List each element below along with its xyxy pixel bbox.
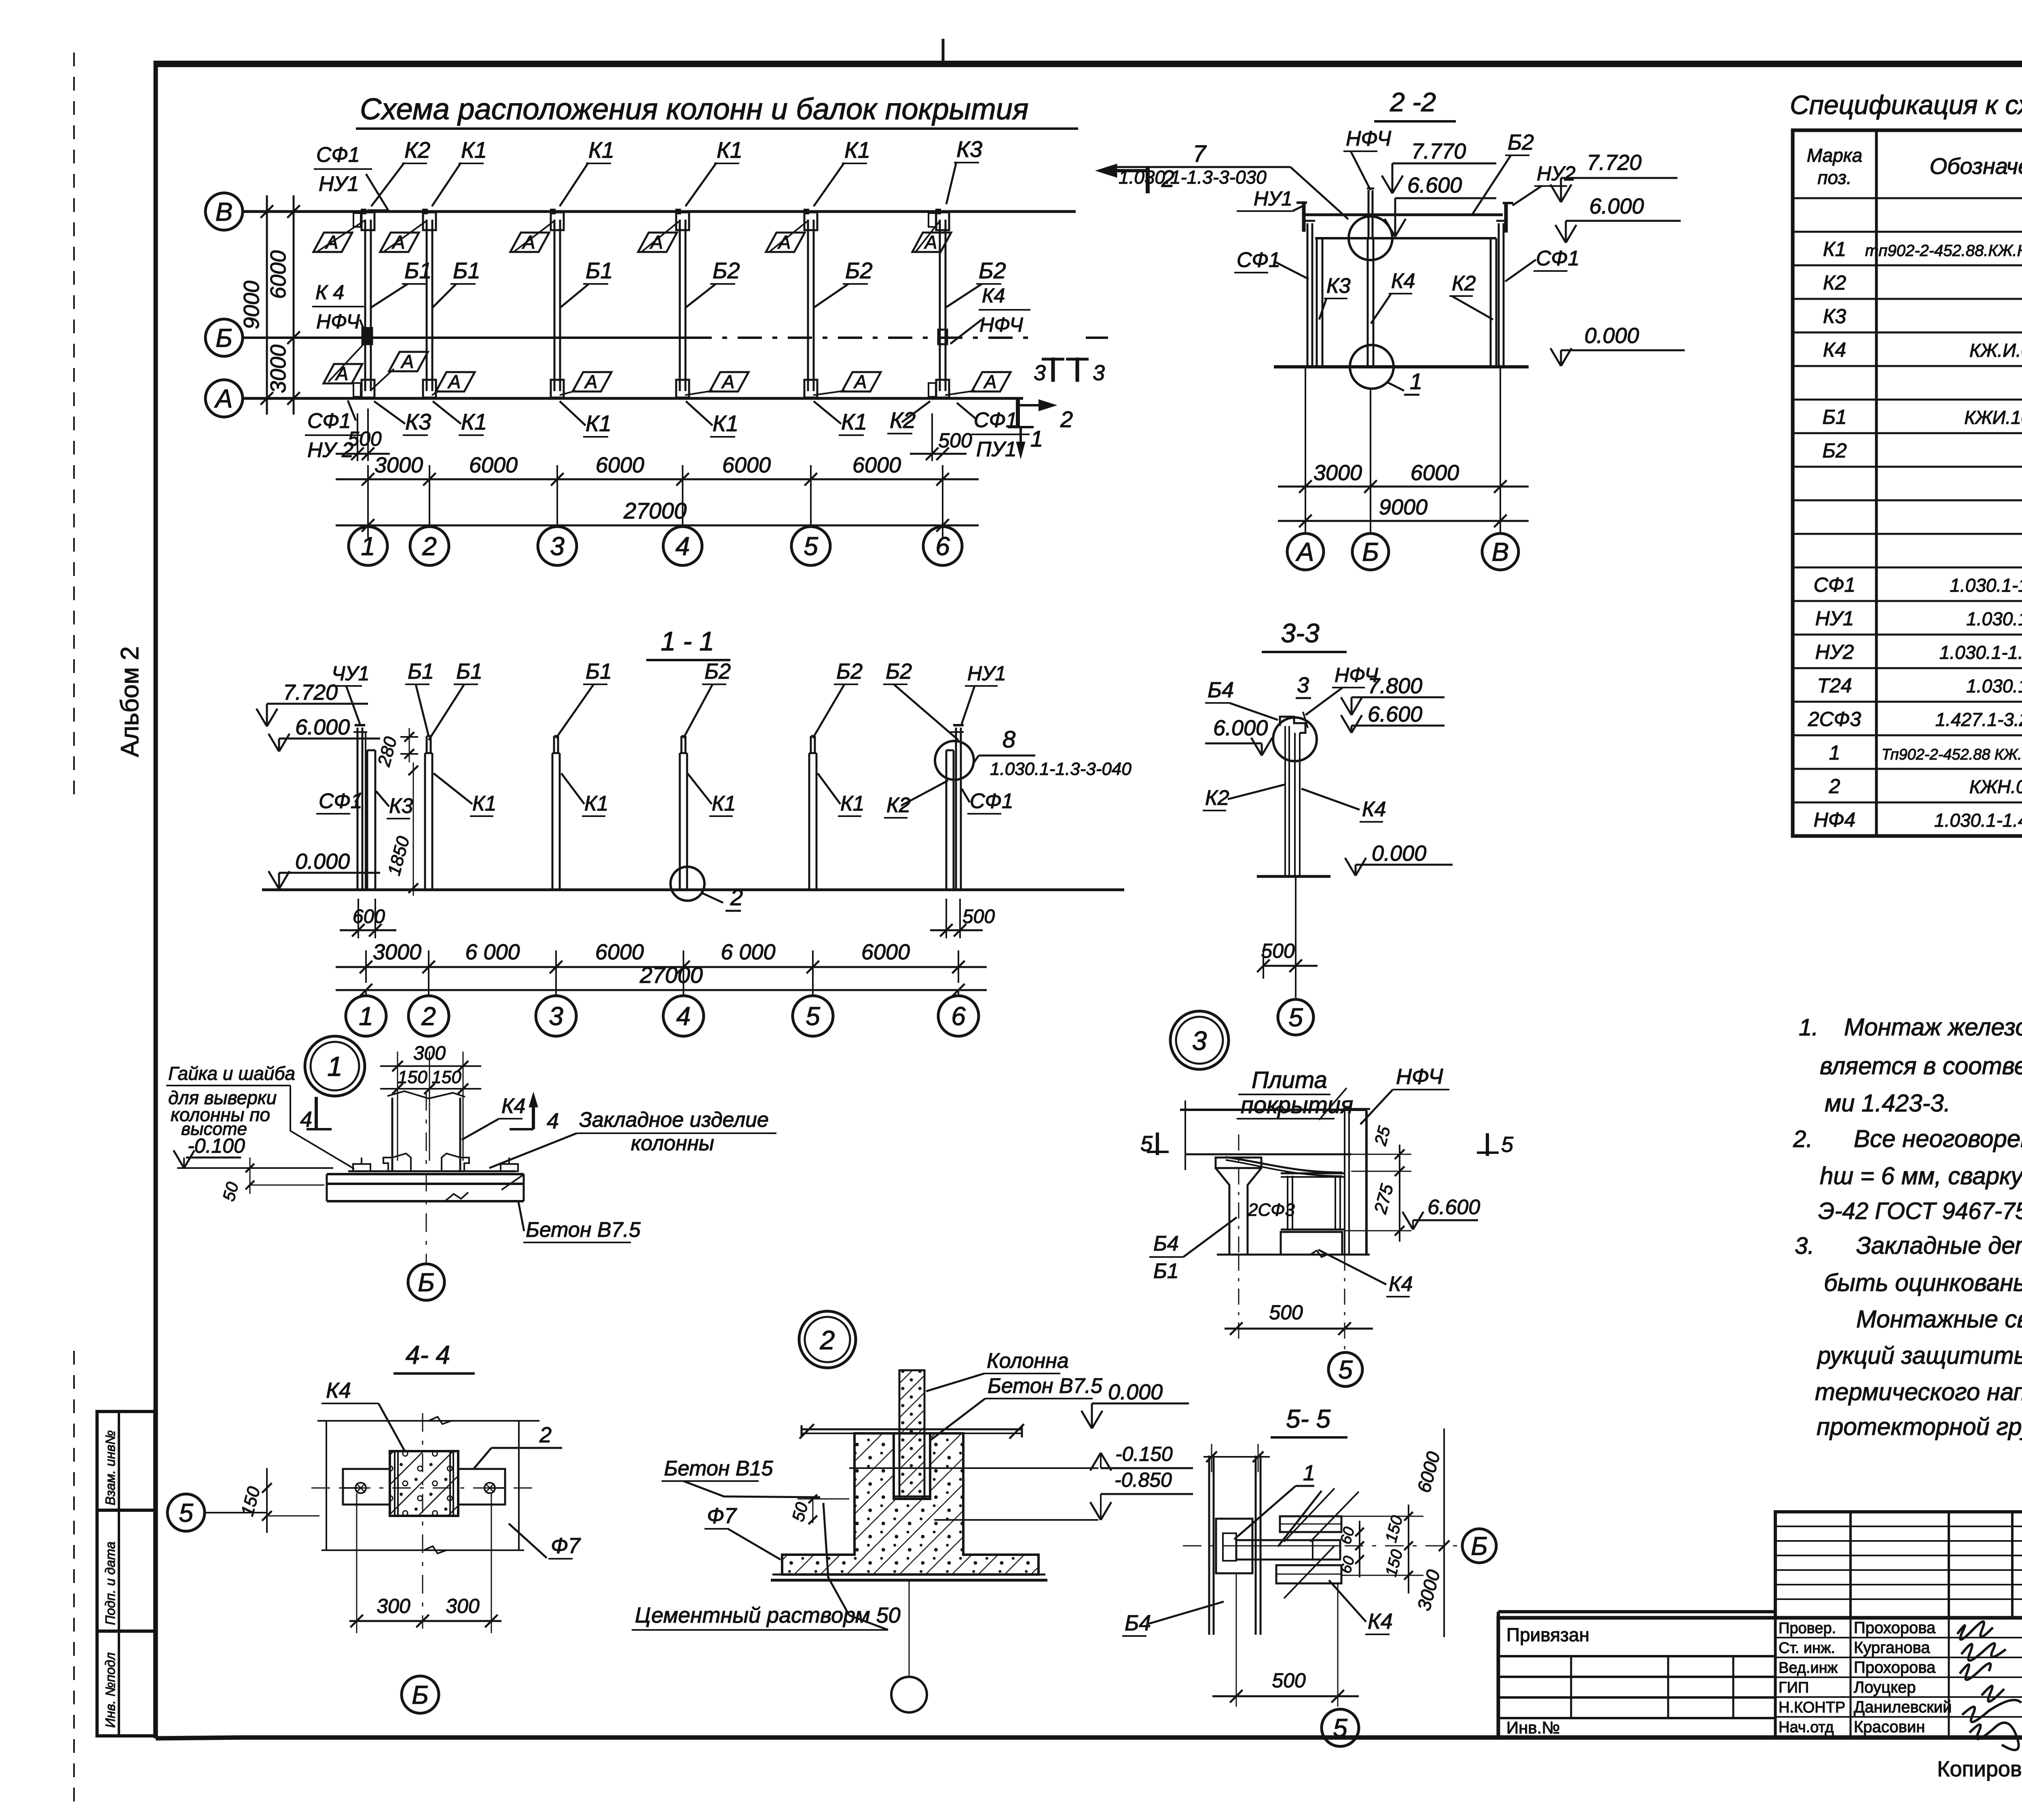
- svg-text:Б: Б: [1362, 537, 1379, 566]
- svg-text:К1: К1: [1823, 238, 1846, 260]
- svg-text:1.030.1-1.4-2-10-03: 1.030.1-1.4-2-10-03: [1950, 575, 2022, 596]
- svg-text:К2: К2: [1205, 786, 1229, 810]
- svg-text:А: А: [924, 232, 937, 253]
- svg-text:А: А: [325, 232, 338, 253]
- svg-text:6 000: 6 000: [721, 940, 775, 964]
- svg-text:Лоуцкер: Лоуцкер: [1854, 1678, 1916, 1696]
- svg-text:Б2: Б2: [886, 659, 912, 684]
- detail 4-4 title: [393, 1340, 475, 1373]
- 2-2 beam Б2: [1303, 215, 1503, 238]
- svg-text:2СФ3: 2СФ3: [1808, 708, 1861, 730]
- svg-text:Бетон В7.5: Бетон В7.5: [988, 1374, 1103, 1398]
- 4-4 outer break lines: [317, 1417, 539, 1553]
- 2-2 ground line: [1274, 365, 1529, 368]
- svg-text:Альбом 2: Альбом 2: [116, 646, 144, 757]
- svg-text:СФ1: СФ1: [1814, 574, 1856, 596]
- node2 column hatched: [899, 1370, 924, 1504]
- 2-2 label НФЧ: [1343, 127, 1392, 190]
- svg-text:ГИП: ГИП: [1779, 1679, 1809, 1696]
- node1 column stub: [387, 1091, 465, 1171]
- svg-text:Копировал:: Копировал:: [1937, 1757, 2022, 1781]
- 1-1 dimension chain: [336, 940, 987, 983]
- svg-text:2: 2: [422, 531, 437, 561]
- svg-text:Б: Б: [418, 1268, 435, 1297]
- svg-text:НФЧ: НФЧ: [1396, 1064, 1443, 1089]
- svg-text:Б4: Б4: [1153, 1232, 1179, 1255]
- svg-text:7.720: 7.720: [1587, 150, 1641, 175]
- svg-text:6: 6: [935, 531, 950, 561]
- svg-text:6000: 6000: [861, 940, 910, 964]
- svg-text:Привязан: Привязан: [1506, 1624, 1589, 1645]
- 1-1 label К1 axis4: [687, 773, 736, 816]
- svg-text:Закладные детали колонн и б: Закладные детали колонн и балок должны: [1856, 1232, 2022, 1259]
- 1-1 dim 280: [374, 728, 418, 769]
- svg-text:9000: 9000: [1379, 495, 1428, 519]
- svg-text:Бетон В7.5: Бетон В7.5: [526, 1218, 641, 1242]
- 5-5 label Б4: [1122, 1602, 1224, 1636]
- svg-text:А: А: [400, 351, 414, 372]
- 2-2 label НУ1: [1237, 187, 1304, 211]
- svg-text:А: А: [447, 371, 461, 392]
- svg-text:Схема расположения колонн и: Схема расположения колонн и балок покрыт…: [360, 92, 1028, 126]
- svg-text:1.030.1-1.3-3-030: 1.030.1-1.3-3-030: [1119, 167, 1267, 188]
- 1-1 elevation 6.000: [269, 715, 380, 751]
- node2 elevation 0.000: [1081, 1380, 1189, 1428]
- 1-1 label К3: [376, 791, 413, 819]
- node2 centerline + circle: [891, 1581, 927, 1712]
- 2-2 axis extension lines: [1305, 367, 1500, 534]
- 5-5 axis circle 5: [1322, 1709, 1359, 1746]
- svg-text:НУ2: НУ2: [1815, 641, 1854, 663]
- svg-text:К4: К4: [1389, 1272, 1413, 1296]
- column К4 at axis6 Б: [938, 330, 947, 344]
- svg-text:НУ1: НУ1: [319, 172, 359, 196]
- section 1-1 title: [646, 626, 730, 660]
- svg-text:300: 300: [413, 1043, 446, 1064]
- svg-text:3-3: 3-3: [1281, 618, 1320, 648]
- 1-1 label К2 axis6: [884, 781, 948, 818]
- svg-text:3000: 3000: [374, 453, 423, 477]
- 1-1 dim 500 right: [930, 899, 995, 938]
- section 3-3 title: [1262, 618, 1347, 652]
- node1 dims 300 150 150: [380, 1043, 481, 1161]
- svg-text:6000: 6000: [1411, 461, 1459, 485]
- svg-text:5: 5: [1338, 1355, 1353, 1384]
- svg-text:1: 1: [359, 1001, 373, 1031]
- 5-5 label 1: [1234, 1461, 1322, 1547]
- 2-2 column К3 left: [1317, 238, 1322, 367]
- 3-3 ground line: [1257, 875, 1330, 878]
- 3-3 elevation 6.600: [1341, 702, 1445, 733]
- 2-2 axis circle Б: [1352, 533, 1389, 570]
- label К1 plan top axis2: [432, 137, 487, 206]
- 5-5 axis circle Б: [1462, 1529, 1496, 1563]
- 2-2 nozzle НУ2 right: [1503, 202, 1513, 233]
- svg-text:-0.150: -0.150: [1115, 1443, 1173, 1465]
- svg-text:Взам. инв№: Взам. инв№: [103, 1430, 118, 1505]
- svg-text:6.000: 6.000: [1213, 716, 1268, 740]
- 5-5 connection box: [1216, 1519, 1252, 1573]
- 1-1 column К1 axis5: [809, 736, 816, 890]
- svg-text:Б2: Б2: [704, 659, 731, 684]
- label К1 plan top axis5: [814, 137, 870, 206]
- spec table grid: [1793, 130, 2022, 836]
- node1 dim 50: [219, 1158, 324, 1203]
- specification title: [1790, 90, 2022, 142]
- 2-2 label НУ2: [1512, 162, 1576, 205]
- svg-text:7.800: 7.800: [1368, 674, 1422, 698]
- 4-4 right plate: [458, 1469, 505, 1505]
- 1-1 column К2 axis6: [946, 750, 954, 890]
- label К1 plan top axis4: [685, 137, 742, 206]
- svg-text:Плита: Плита: [1252, 1067, 1327, 1093]
- svg-text:6000: 6000: [596, 453, 644, 477]
- node1 left note text: [166, 1063, 354, 1169]
- 1-1 axis circles: [346, 990, 386, 1036]
- node3 label НФЧ: [1360, 1064, 1449, 1124]
- svg-text:1: 1: [1303, 1461, 1315, 1485]
- node2 label Бетон В7.5: [931, 1374, 1103, 1440]
- stand СФ1 at axis1 А: [353, 383, 361, 397]
- svg-text:1: 1: [361, 531, 375, 561]
- svg-text:3000: 3000: [1313, 461, 1362, 485]
- svg-text:Б2: Б2: [1822, 439, 1847, 462]
- 1-1 node 2 circle: [670, 867, 704, 901]
- notes item 1: [1799, 1014, 2022, 1117]
- svg-text:2: 2: [1060, 406, 1073, 432]
- svg-text:К1: К1: [717, 137, 742, 163]
- svg-text:500: 500: [1272, 1669, 1306, 1692]
- svg-text:Б2: Б2: [979, 258, 1006, 283]
- svg-text:Ф7: Ф7: [707, 1504, 737, 1528]
- flags А top row: [313, 220, 365, 253]
- plan axis circles 1-6: [349, 525, 387, 565]
- svg-text:6.600: 6.600: [1428, 1196, 1480, 1219]
- label К1 plan bottom axis2: [433, 401, 487, 435]
- svg-text:А: А: [721, 371, 735, 392]
- svg-text:К4: К4: [326, 1378, 351, 1403]
- svg-text:КЖН.00.00.00.02: КЖН.00.00.00.02: [1969, 776, 2022, 797]
- 2-2 node circle bottom: [1350, 345, 1394, 389]
- node2 label Цементный растворм 50: [632, 1503, 901, 1630]
- svg-text:6.600: 6.600: [1368, 702, 1422, 726]
- 3-3 elevation 6.000 left: [1205, 716, 1272, 756]
- 3-3 dim 500: [1257, 940, 1318, 979]
- label К4/НФЧ at axis6 Б: [950, 284, 1030, 344]
- svg-text:Бетон В15: Бетон В15: [664, 1457, 774, 1480]
- 5-5 beam Б4 verticals: [1209, 1456, 1261, 1635]
- 1-1 column К3 axis1: [367, 750, 375, 890]
- 1-1 node 8 circle: [935, 741, 974, 780]
- svg-text:27000: 27000: [623, 498, 687, 523]
- svg-text:К1: К1: [472, 792, 497, 815]
- svg-text:Красовин: Красовин: [1854, 1718, 1925, 1736]
- 2-2 label СФ1 right: [1505, 247, 1580, 281]
- svg-text:ПУ1: ПУ1: [976, 438, 1017, 461]
- svg-text:К3: К3: [405, 409, 431, 434]
- svg-text:К1: К1: [461, 137, 487, 163]
- spec row 2СФ3: [1808, 707, 2022, 731]
- svg-text:Инв.№: Инв.№: [1506, 1718, 1560, 1737]
- svg-text:Монтажные сварные швы соеди: Монтажные сварные швы соединений конст-: [1856, 1306, 2022, 1333]
- fold mark line left edge: [73, 53, 75, 1812]
- svg-text:2 -2: 2 -2: [1390, 87, 1436, 117]
- svg-text:ЧУ1: ЧУ1: [332, 662, 369, 685]
- svg-text:Инв. №подл: Инв. №подл: [103, 1653, 118, 1728]
- 2-2 axis circle А: [1287, 533, 1324, 570]
- spec row 1: [1829, 741, 2022, 764]
- notes item 2: [1793, 1125, 2022, 1224]
- svg-text:К4: К4: [1823, 339, 1846, 361]
- 4-4 axis circle 5: [167, 1494, 267, 1531]
- 5-5 label К4: [1329, 1580, 1393, 1634]
- svg-text:Б1: Б1: [408, 659, 434, 684]
- spec row К3: [1823, 305, 2022, 328]
- node2 label Ф7: [704, 1504, 780, 1560]
- svg-text:Обозначение: Обозначение: [1929, 153, 2022, 179]
- node1 base plate: [327, 1171, 524, 1201]
- spec row НУ1: [1815, 607, 2022, 630]
- 1-1 column К1 axis3: [552, 736, 560, 890]
- svg-text:2: 2: [421, 1001, 436, 1031]
- 2-2 stand СФ1 right: [1496, 221, 1507, 367]
- svg-text:Гайка и шайба: Гайка и шайба: [168, 1063, 295, 1084]
- svg-text:5: 5: [804, 531, 818, 561]
- 3-3 axis extension: [1295, 876, 1297, 998]
- svg-text:1.030.1-1.4-1-240: 1.030.1-1.4-1-240: [1966, 675, 2022, 696]
- svg-text:Б1: Б1: [586, 258, 613, 283]
- svg-text:500: 500: [348, 427, 382, 450]
- svg-text:К3: К3: [1326, 274, 1351, 298]
- 2-2 label К2: [1449, 272, 1493, 320]
- svg-text:покрытия: покрытия: [1241, 1092, 1353, 1118]
- svg-text:Б1: Б1: [404, 258, 432, 283]
- svg-text:А: А: [1295, 537, 1314, 566]
- 4-4 dims 300 300: [349, 1493, 501, 1633]
- label К1 plan bottom axis4: [686, 401, 738, 437]
- 1-1 column К1 axis2: [425, 736, 432, 890]
- svg-text:СФ1: СФ1: [1237, 248, 1280, 272]
- svg-text:Спецификация к схеме распол: Спецификация к схеме расположения колонн…: [1790, 90, 2022, 120]
- label СФ1/НУ1 top-left: [314, 143, 388, 210]
- svg-text:К1: К1: [584, 792, 609, 815]
- svg-text:В: В: [1492, 537, 1509, 566]
- svg-text:Колонна: Колонна: [987, 1349, 1069, 1373]
- svg-text:А: А: [983, 371, 997, 392]
- 4-4 centerlines: [311, 1413, 537, 1629]
- section marks 3-3 near Б: [1034, 358, 1105, 385]
- left dim chain 6000 3000: [266, 195, 300, 415]
- 4-4 axis circle Б: [402, 1676, 439, 1713]
- svg-text:Э-42 ГОСТ 9467-75 по ГОСТ 52: Э-42 ГОСТ 9467-75 по ГОСТ 5264-80, тип с…: [1818, 1198, 2022, 1224]
- 2-2 label К3: [1319, 274, 1351, 320]
- svg-text:6000: 6000: [852, 453, 901, 477]
- 3-3 column К2/К4: [1285, 726, 1300, 876]
- svg-text:Вед.инж: Вед.инж: [1779, 1659, 1838, 1676]
- node2 foundation block hatched: [782, 1433, 1038, 1575]
- svg-text:быть оцинкованы в процессе: быть оцинкованы в процессе изготовления.: [1824, 1269, 2022, 1296]
- svg-text:600: 600: [353, 906, 385, 927]
- svg-text:1.030.1-1.4-1-020: 1.030.1-1.4-1-020: [1966, 608, 2022, 629]
- node 3 bubble: [1170, 1011, 1229, 1069]
- 2-2 label К4: [1371, 269, 1415, 324]
- node3 wall НФЧ vertical: [1343, 1109, 1370, 1255]
- svg-text:К1: К1: [841, 409, 867, 434]
- svg-text:Б1: Б1: [456, 659, 482, 684]
- 1-1 node 8 label: [974, 726, 1132, 779]
- svg-text:Марка: Марка: [1807, 145, 1862, 166]
- 1-1 nozzle cap axis1: [353, 731, 367, 733]
- svg-text:2СФ3: 2СФ3: [1248, 1200, 1295, 1220]
- node 2 bubble: [799, 1311, 856, 1368]
- 5-5 dim 500: [1212, 1573, 1359, 1707]
- label К3 plan top axis6: [946, 136, 982, 204]
- svg-text:НУ1: НУ1: [1254, 187, 1292, 210]
- svg-text:ми 1.423-3.: ми 1.423-3.: [1825, 1090, 1950, 1117]
- svg-text:6000: 6000: [266, 250, 290, 299]
- grid circle Б: [205, 319, 243, 356]
- node3 element 2СФ3: [1281, 1173, 1344, 1230]
- label СФ1/НУ2 bottom-left: [305, 400, 363, 462]
- 2-2 column К4 center: [1367, 188, 1374, 367]
- svg-text:А: А: [853, 371, 867, 392]
- node3 label 2СФ3: [1248, 1200, 1295, 1220]
- svg-text:-0.850: -0.850: [1115, 1469, 1172, 1491]
- svg-text:Б4: Б4: [1125, 1611, 1151, 1635]
- svg-text:0.000: 0.000: [295, 849, 350, 874]
- svg-text:Б2: Б2: [845, 258, 873, 283]
- 2-2 elevation 7.720: [1550, 150, 1677, 202]
- 1-1 elevation 0.000: [269, 849, 380, 889]
- label К3 plan bottom: [374, 401, 431, 435]
- node2 dim 50: [788, 1494, 849, 1524]
- spec row Б1: [1822, 405, 2022, 429]
- node3 labels Б4 Б1: [1149, 1217, 1237, 1283]
- node3 label Плита покрытия: [1237, 1067, 1353, 1120]
- label СФ1/НУ1 bottom-right: [957, 403, 1030, 461]
- title block names columns: [1775, 1618, 2022, 1737]
- title block left part: [1498, 1624, 1775, 1737]
- node 1 bubble: [305, 1036, 365, 1096]
- svg-text:3: 3: [1034, 361, 1046, 385]
- label К2 plan top: [371, 137, 430, 206]
- svg-text:К4: К4: [1362, 798, 1386, 821]
- svg-text:9000: 9000: [239, 281, 264, 329]
- svg-text:300: 300: [446, 1595, 480, 1617]
- 1-1 elevation 7.720: [256, 680, 368, 726]
- svg-text:протекторной грунтовки.: протекторной грунтовки.: [1817, 1413, 2022, 1440]
- svg-text:4: 4: [676, 1001, 691, 1031]
- svg-text:3: 3: [550, 531, 565, 561]
- svg-text:К4: К4: [1368, 1609, 1393, 1634]
- svg-text:Б: Б: [412, 1680, 429, 1709]
- 1-1 dim 1850: [384, 762, 418, 896]
- 2-2 label Б2: [1472, 130, 1534, 215]
- svg-text:3: 3: [549, 1001, 563, 1031]
- svg-text:НУ2: НУ2: [1537, 162, 1576, 185]
- section mark 2 top-right: [1098, 165, 1174, 193]
- svg-text:НУ1: НУ1: [1815, 607, 1854, 630]
- svg-text:Н.КОНТР: Н.КОНТР: [1779, 1699, 1845, 1716]
- svg-text:СФ1: СФ1: [1536, 247, 1580, 270]
- svg-text:Т24: Т24: [1817, 674, 1852, 697]
- svg-text:5: 5: [1333, 1713, 1347, 1742]
- spec row К4: [1823, 338, 2022, 362]
- label 7 / 1.030.1-1.3-3-030: [1114, 141, 1348, 219]
- svg-text:1: 1: [1829, 741, 1840, 764]
- svg-text:поз.: поз.: [1817, 167, 1852, 188]
- svg-text:500: 500: [938, 429, 972, 452]
- svg-text:4- 4: 4- 4: [406, 1340, 450, 1369]
- spec row Т24: [1817, 674, 2022, 697]
- fold tick top: [942, 39, 945, 63]
- svg-text:1.030.1-1.4-1-020-01: 1.030.1-1.4-1-020-01: [1940, 642, 2022, 663]
- svg-text:К2: К2: [890, 407, 916, 433]
- label К1 plan bottom axis3: [560, 401, 611, 437]
- svg-text:К1: К1: [840, 792, 865, 815]
- 2-2 axis circle В: [1482, 533, 1519, 570]
- 2-2 node circle top (НФЧ joint): [1349, 216, 1392, 260]
- svg-text:СФ1: СФ1: [974, 408, 1017, 432]
- 3-3 label К2: [1203, 785, 1284, 811]
- node3 ground line: [1217, 1251, 1370, 1257]
- svg-text:150: 150: [398, 1067, 427, 1087]
- svg-text:К4: К4: [982, 284, 1005, 307]
- svg-text:К2: К2: [886, 794, 911, 817]
- 5-5 plates hatched: [1276, 1516, 1341, 1583]
- svg-text:3: 3: [1192, 1026, 1207, 1056]
- svg-text:Б1: Б1: [453, 258, 480, 283]
- axis line А: [243, 397, 1023, 400]
- svg-text:А: А: [214, 384, 233, 413]
- svg-text:2: 2: [1829, 775, 1840, 798]
- 4-4 dim 150: [237, 1468, 319, 1533]
- svg-text:Курганова: Курганова: [1854, 1639, 1930, 1657]
- node3 elevation 6.600: [1402, 1196, 1480, 1230]
- node3 К4 head box: [1281, 1232, 1342, 1255]
- grid circle В: [205, 193, 243, 230]
- svg-text:6.000: 6.000: [1589, 194, 1644, 218]
- 3-3 axis circle 5: [1278, 999, 1313, 1035]
- node2 elevation -0.850: [934, 1469, 1193, 1520]
- svg-text:1.427.1-3.2-0.25.0-02: 1.427.1-3.2-0.25.0-02: [1935, 709, 2022, 730]
- svg-text:Монтаж железобетонных констр: Монтаж железобетонных конструкций осущес…: [1844, 1014, 2022, 1041]
- grid circle А: [205, 380, 243, 417]
- 2-2 elevation 7.770: [1382, 139, 1496, 193]
- svg-text:1: 1: [1410, 368, 1422, 394]
- 2-2 stand СФ1 left: [1305, 221, 1315, 367]
- 3-3 elevation 0.000: [1345, 841, 1453, 876]
- node1 centerline: [426, 1092, 427, 1263]
- svg-text:СФ1: СФ1: [316, 143, 360, 167]
- 2-2 elevation 0.000: [1550, 324, 1685, 366]
- svg-text:К1: К1: [586, 411, 611, 436]
- 2-2 node label 1: [1387, 368, 1422, 395]
- svg-text:1.030.1-1.4- 1-010-03: 1.030.1-1.4- 1-010-03: [1934, 810, 2022, 831]
- svg-text:НФЧ: НФЧ: [316, 310, 360, 333]
- svg-text:К1: К1: [461, 409, 487, 434]
- svg-text:СФ1: СФ1: [970, 789, 1013, 813]
- svg-text:6 000: 6 000: [465, 940, 520, 964]
- 2-2 column К2 right: [1491, 238, 1496, 367]
- svg-text:К3: К3: [1823, 305, 1846, 328]
- spec table header: [1807, 145, 2022, 188]
- title block revision table: [1775, 1512, 2022, 1618]
- svg-text:-0.100: -0.100: [188, 1134, 245, 1157]
- svg-text:Ф7: Ф7: [551, 1534, 581, 1558]
- 1-1 label К1 axis3: [561, 773, 609, 816]
- plan overall dim 27000: [336, 493, 979, 538]
